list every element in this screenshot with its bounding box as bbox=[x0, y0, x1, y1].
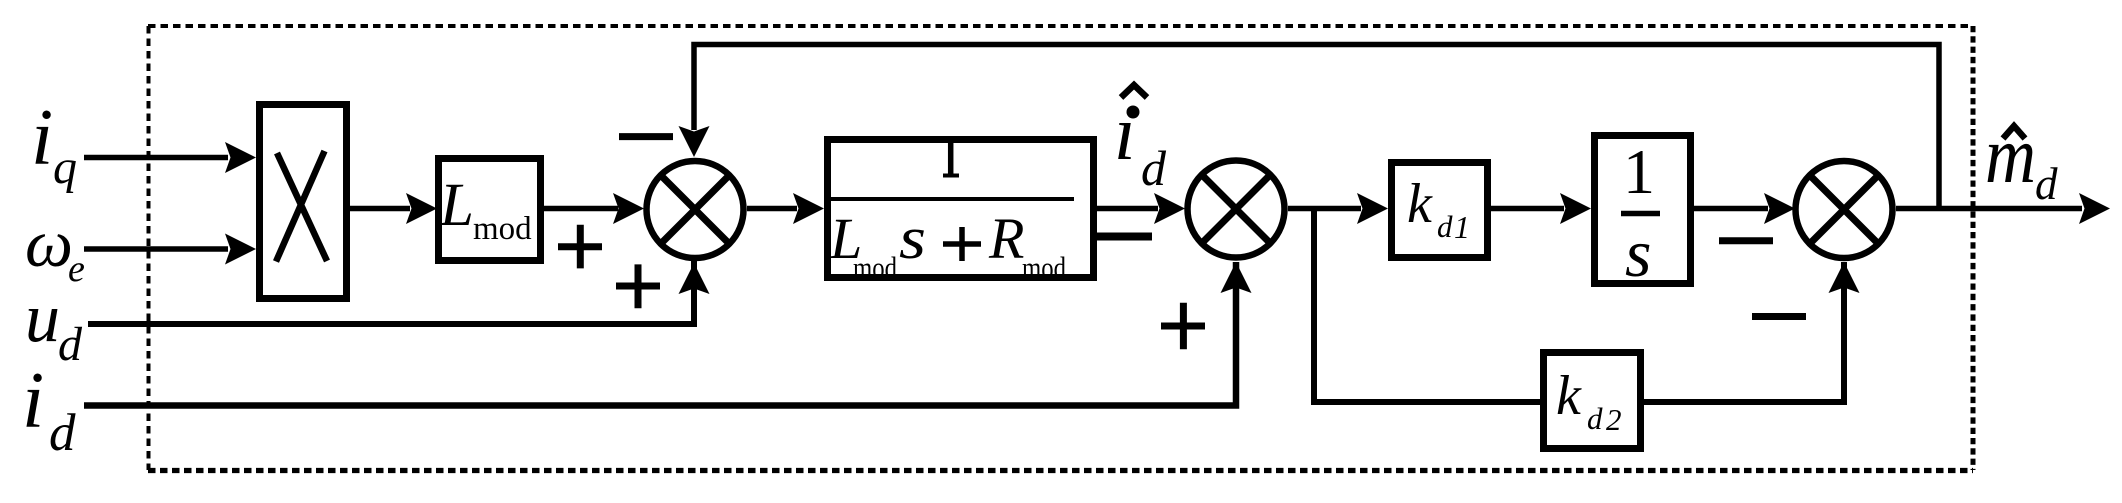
svg-text:ω: ω bbox=[25, 205, 73, 281]
svg-text:d: d bbox=[2035, 159, 2058, 209]
svg-text:u: u bbox=[25, 280, 60, 357]
svg-text:d: d bbox=[58, 318, 83, 371]
wire S3 to output bbox=[1896, 193, 2110, 224]
svg-text:d: d bbox=[1141, 140, 1167, 196]
wire Lmod to summing junction S1 bbox=[544, 193, 644, 224]
wire u_d input to S1 bottom bbox=[88, 261, 710, 324]
output label i_d hat bbox=[1114, 85, 1167, 196]
svg-text:k: k bbox=[1407, 173, 1433, 235]
wire kd2 to S3 bottom bbox=[1644, 262, 1860, 402]
wire i_q input bbox=[84, 142, 256, 173]
wire S1 to transfer block bbox=[747, 193, 824, 224]
gain block kd1 bbox=[1392, 163, 1488, 258]
svg-text:e: e bbox=[68, 248, 85, 290]
gain block Lmod bbox=[439, 159, 541, 261]
wire integrator to S3 bbox=[1694, 193, 1795, 224]
input label i_d bbox=[22, 357, 76, 462]
svg-text:1: 1 bbox=[1623, 136, 1655, 207]
svg-text:2: 2 bbox=[1606, 402, 1622, 437]
gain block kd2 bbox=[1544, 353, 1641, 449]
feedback wire from output to S1 top bbox=[679, 45, 1940, 209]
svg-text:R: R bbox=[988, 206, 1024, 271]
plus sign S2 bottom input bbox=[1161, 303, 1205, 350]
svg-text:d: d bbox=[1437, 209, 1453, 244]
summing junction S3 bbox=[1796, 161, 1893, 258]
svg-text:m: m bbox=[1985, 112, 2036, 200]
svg-text:s: s bbox=[1625, 215, 1651, 291]
svg-text:mod: mod bbox=[473, 211, 532, 247]
input label u_d bbox=[25, 280, 83, 371]
svg-text:1: 1 bbox=[1454, 209, 1470, 245]
svg-text:mod: mod bbox=[853, 250, 897, 285]
svg-text:s: s bbox=[899, 205, 926, 271]
svg-text:k: k bbox=[1556, 365, 1582, 427]
integrator block 1/s bbox=[1595, 136, 1691, 292]
svg-text:d: d bbox=[49, 404, 76, 462]
dashed boundary frame bbox=[148, 26, 1973, 471]
plus sign S1 left input bbox=[558, 225, 602, 269]
output label m_d hat bbox=[1985, 112, 2058, 209]
minus sign S1 top input bbox=[619, 133, 673, 140]
input label i_q bbox=[31, 94, 77, 194]
wire transfer block to summing junction S2 bbox=[1097, 193, 1185, 224]
summing junction S2 bbox=[1188, 161, 1285, 258]
plus sign S1 bottom input bbox=[616, 264, 660, 308]
wire S2 to kd1 bbox=[1288, 193, 1388, 224]
minus sign at transfer block output bbox=[1097, 233, 1152, 241]
svg-text:d: d bbox=[1587, 401, 1603, 436]
svg-text:L: L bbox=[439, 172, 474, 239]
wire S2 output branch to kd2 bbox=[1314, 209, 1540, 403]
minus sign S3 bottom input bbox=[1752, 313, 1806, 320]
multiplier block bbox=[260, 105, 347, 299]
wire omega_e input bbox=[84, 234, 256, 265]
svg-text:ı: ı bbox=[1114, 89, 1136, 176]
svg-text:i: i bbox=[22, 357, 44, 445]
wire multiplier to Lmod bbox=[350, 193, 437, 224]
svg-text:q: q bbox=[53, 141, 77, 194]
svg-text:mod: mod bbox=[1022, 250, 1066, 285]
svg-text:i: i bbox=[31, 94, 53, 182]
summing junction S1 bbox=[647, 161, 744, 258]
input label omega_e bbox=[25, 205, 85, 290]
wire kd1 to integrator bbox=[1491, 193, 1591, 224]
transfer block 1/(Lmod s + Rmod) bbox=[826, 140, 1094, 286]
minus sign S3 left input bbox=[1719, 237, 1773, 244]
wire i_d input to S2 bottom bbox=[84, 262, 1252, 406]
